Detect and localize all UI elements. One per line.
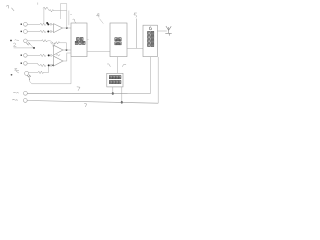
wire jog	[48, 8, 50, 11]
extra dark dot	[52, 64, 54, 66]
input terminal circle row1 ch1	[24, 22, 28, 26]
stub vertical near opamp top	[60, 4, 66, 19]
numeral 7 leader upper	[77, 87, 80, 91]
op-amp U3	[54, 56, 63, 66]
block B2 A/D converter	[110, 23, 127, 57]
small arrow on drop	[29, 79, 30, 80]
bus terminal circle 2	[23, 99, 27, 103]
op-amp U1	[54, 24, 63, 33]
input bubble row1	[50, 23, 52, 25]
output junction U1	[66, 27, 68, 29]
opamp U2 output wire	[63, 49, 71, 51]
B4 drop wires to bus	[112, 87, 114, 94]
wire to opamp U2	[48, 41, 54, 47]
junction dot row2	[47, 31, 49, 33]
tick	[70, 13, 72, 15]
top tick mark	[37, 3, 39, 5]
wire B3 to antenna	[157, 30, 166, 32]
small arrows mid	[50, 42, 53, 44]
terminal label dot row1 ch1	[21, 24, 22, 25]
LED2 lower path	[30, 57, 72, 84]
input bubble row2	[50, 31, 52, 33]
resistor R1	[40, 23, 46, 25]
wire into opamp row1	[52, 24, 54, 25]
numeral 5 leader	[134, 13, 137, 48]
sensor label ch1 LED row	[15, 39, 19, 42]
junction dot bus1	[112, 92, 114, 94]
resistor R2	[40, 30, 46, 32]
wire row1 ch1	[27, 23, 40, 25]
LED D2 arrows	[27, 75, 31, 77]
wire LED2 upper	[29, 71, 38, 73]
bus terminal circle 1	[24, 91, 28, 95]
feedback junction dark dot	[46, 22, 48, 24]
numeral 9 leader right	[122, 64, 126, 67]
figure numeral 1 (top-left)	[6, 5, 14, 11]
block B4 power supply	[107, 73, 123, 87]
input bubble ch2 row2	[50, 65, 52, 67]
leader end dot	[33, 47, 35, 49]
wire B2 to B3	[127, 47, 143, 49]
resistor R6	[38, 71, 43, 73]
opamp U3 output wire with elbow to block1	[63, 53, 71, 61]
feedback resistor Rf1a	[43, 7, 48, 9]
antenna	[165, 26, 171, 36]
bus2 right riser	[157, 57, 159, 103]
op-amp U2	[54, 45, 63, 55]
AC label line2	[12, 98, 17, 101]
bus1 right riser	[149, 57, 151, 94]
sensor label ch2 LED row	[15, 69, 19, 72]
resistor R5	[40, 64, 46, 66]
feedback left leg	[53, 43, 55, 46]
junction dot ch2 row2	[48, 64, 50, 66]
numeral 6	[149, 27, 151, 30]
wire R6 to node	[44, 66, 49, 72]
wire row2 ch1	[27, 31, 40, 33]
terminal label dot row2 ch2	[21, 63, 22, 64]
feedback left vertical	[43, 8, 45, 24]
B2 text row1	[115, 38, 118, 41]
feedback network U1	[54, 11, 67, 28]
terminal label dot row2 ch1	[21, 31, 22, 32]
LED D1 arrows	[27, 43, 31, 46]
wire into opamp	[52, 55, 54, 57]
input terminal circle LED1	[24, 39, 28, 43]
numeral 2 leader	[14, 68, 19, 72]
vertical near block1	[68, 11, 70, 26]
resistor R4	[40, 54, 46, 56]
B1 right stub	[87, 39, 89, 41]
numeral 7 leader lower	[84, 103, 87, 107]
junction dot ch2 row1	[48, 54, 50, 56]
block B3 remote transmit module	[143, 25, 157, 56]
input terminal circle row2 ch2	[24, 62, 28, 66]
B4 text row2	[109, 81, 112, 84]
numeral 3 leader	[73, 19, 77, 23]
B3 text rows	[148, 32, 151, 35]
opamp U1 output wire	[63, 27, 71, 29]
feedback resistor Rf3	[56, 54, 60, 56]
bus line 2	[27, 101, 158, 104]
bus line 1	[27, 92, 150, 94]
block B1 signal conditioner	[71, 23, 87, 57]
input bubble ch2 row1	[50, 55, 52, 57]
numeral 2 squiggle ch1	[13, 43, 16, 46]
dark dot left of LED1 label	[10, 40, 12, 42]
input terminal circle row2 ch1	[24, 30, 28, 34]
input terminal circle row1 ch2	[24, 54, 28, 58]
B1 text row2	[75, 41, 78, 44]
numeral 8 leader left	[107, 64, 110, 67]
leader line to opamp input	[14, 45, 34, 48]
terminal label dot row1 ch2	[21, 55, 22, 56]
wire B1 to B2	[87, 50, 110, 52]
B4 text row1	[109, 76, 112, 79]
wire LED1 row	[27, 40, 41, 42]
feedback resistor Rf2	[54, 42, 59, 44]
AC label line1	[13, 91, 18, 94]
feedback network U2	[60, 43, 67, 50]
wire B2 bottom to B4	[116, 57, 118, 74]
junction dot row1	[47, 23, 49, 25]
junction dot bus2	[121, 101, 123, 103]
wire ch2 row1	[27, 54, 40, 56]
B1 text row1	[77, 38, 80, 41]
numeral 4 leader	[97, 13, 100, 17]
dark dot left of LED2	[11, 74, 13, 76]
B2 text row2	[115, 42, 118, 45]
input terminal circle LED2	[25, 71, 29, 75]
wire ch2 row2	[27, 63, 40, 65]
feedback resistor Rf1b	[49, 10, 53, 12]
wire into opamp row2	[52, 30, 54, 31]
resistor R3	[42, 40, 48, 42]
output junction U2	[66, 49, 68, 51]
